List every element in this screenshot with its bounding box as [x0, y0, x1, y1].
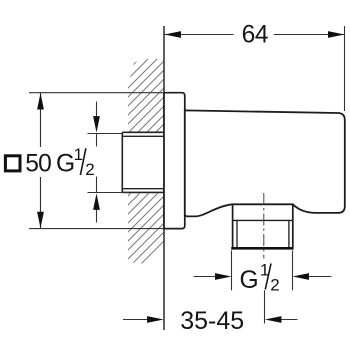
svg-text:64: 64	[242, 21, 269, 48]
wall face line / extension line	[163, 26, 165, 330]
dimension 64	[164, 26, 345, 111]
escutcheon plate	[164, 93, 185, 229]
svg-text:1: 1	[74, 145, 83, 164]
svg-text:G: G	[56, 150, 75, 177]
dimension G1/2 left	[88, 102, 128, 223]
dimension G1/2 bottom	[194, 251, 332, 291]
svg-text:50: 50	[25, 150, 51, 177]
svg-text:35-45: 35-45	[180, 307, 244, 335]
svg-text:2: 2	[270, 276, 279, 295]
in-wall union box	[122, 132, 164, 192]
nipple centerline	[263, 193, 265, 259]
wall hatch lower section	[126, 192, 166, 266]
dimension 35-45	[123, 290, 298, 323]
svg-text:2: 2	[85, 160, 94, 179]
elbow body outline	[185, 110, 345, 216]
svg-text:G: G	[240, 267, 259, 294]
threaded outlet nipple	[231, 204, 293, 248]
dimension square 50	[29, 93, 164, 229]
square symbol of 50	[5, 156, 20, 171]
wall hatch upper section	[126, 56, 166, 134]
